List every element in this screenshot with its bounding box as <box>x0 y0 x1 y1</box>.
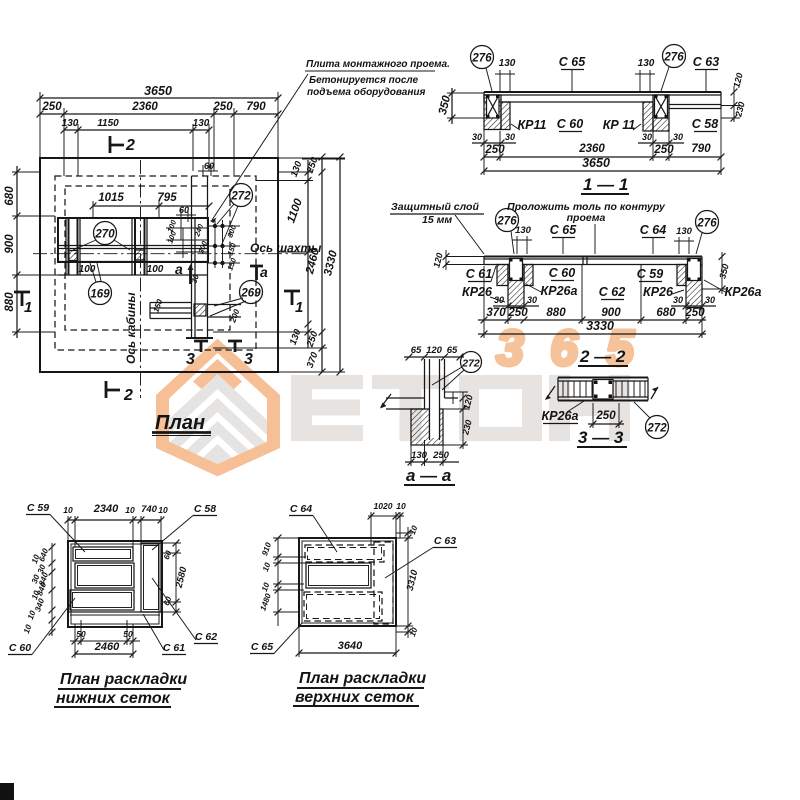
svg-text:269: 269 <box>240 288 261 300</box>
plan outer wall <box>40 158 278 372</box>
right stub lines <box>208 305 242 318</box>
dim 120 230 right <box>733 86 735 122</box>
cabin axis centerline <box>140 160 142 398</box>
svg-text:790: 790 <box>691 143 711 155</box>
svg-text:1: 1 <box>295 299 303 316</box>
svg-text:С 62: С 62 <box>195 631 217 643</box>
svg-text:30: 30 <box>705 295 715 305</box>
right column 1-1 <box>653 95 669 131</box>
svg-text:10: 10 <box>158 505 168 515</box>
circle 276 right 2-2 <box>696 211 719 234</box>
svg-text:740: 740 <box>141 504 158 515</box>
beam mid hatched insert <box>135 250 144 260</box>
hatched footing <box>411 409 443 445</box>
beam block outline <box>58 218 208 262</box>
SECTION 1-1 <box>437 45 747 195</box>
section mark 1 right <box>284 291 300 305</box>
svg-text:30: 30 <box>494 295 504 305</box>
left dim chain up <box>277 538 279 626</box>
svg-text:250: 250 <box>595 410 616 422</box>
right chain C 3330 <box>339 157 341 372</box>
svg-text:30: 30 <box>673 295 683 305</box>
svg-text:169: 169 <box>90 289 110 301</box>
dim row 130 1150 130 <box>64 129 209 131</box>
bottom strip <box>68 611 162 613</box>
LOWER MESH PLAN <box>8 502 218 707</box>
svg-text:276: 276 <box>663 52 684 64</box>
opening column hatched insert <box>194 304 206 316</box>
left column 2-2 <box>508 265 524 308</box>
svg-text:100: 100 <box>147 264 164 275</box>
corner mark bottom-left <box>0 783 14 800</box>
left dim chain low <box>51 543 53 636</box>
svg-text:План раскладки: План раскладки <box>60 671 187 688</box>
svg-text:2 — 2: 2 — 2 <box>579 347 626 366</box>
svg-text:250: 250 <box>484 144 505 156</box>
svg-text:250: 250 <box>212 101 233 113</box>
lower dashed band <box>304 592 382 621</box>
svg-text:КР26а: КР26а <box>542 409 579 423</box>
section mark 3 left <box>194 341 208 352</box>
svg-text:Плита монтажного проема.: Плита монтажного проема. <box>306 59 450 70</box>
svg-text:900: 900 <box>4 234 16 254</box>
beam left column verticals <box>66 218 80 275</box>
svg-text:Бетонируется после: Бетонируется после <box>309 75 418 86</box>
svg-text:10: 10 <box>63 505 73 515</box>
svg-text:10: 10 <box>125 505 135 515</box>
svg-text:15 мм: 15 мм <box>422 214 452 226</box>
svg-text:790: 790 <box>246 101 266 113</box>
section mark a right <box>250 266 263 280</box>
svg-text:3: 3 <box>244 351 253 368</box>
svg-text:30: 30 <box>642 132 652 142</box>
svg-text:120: 120 <box>426 345 443 356</box>
bar 3-3 <box>558 378 648 401</box>
lower small beam <box>150 303 192 319</box>
extension verticals 2-2 <box>484 265 702 339</box>
svg-text:10: 10 <box>396 501 406 511</box>
slab 1-1 <box>484 91 721 93</box>
end arrows 3-3 <box>546 386 658 399</box>
right chain B 250 2460 250 370 <box>321 157 323 372</box>
svg-text:1015: 1015 <box>98 192 124 204</box>
right extension lines <box>213 158 345 372</box>
watermark 365 <box>496 320 635 376</box>
left arm <box>386 398 425 409</box>
svg-text:880: 880 <box>546 307 566 319</box>
svg-text:План раскладки: План раскладки <box>299 670 426 687</box>
right arm <box>445 397 459 399</box>
dim row 250 2360 250 790 <box>40 113 278 115</box>
svg-text:КР26а: КР26а <box>541 284 578 298</box>
bar verticals <box>563 381 645 397</box>
svg-text:250: 250 <box>41 101 62 113</box>
middle band <box>75 563 134 588</box>
svg-text:2340: 2340 <box>93 503 119 515</box>
svg-text:КР26: КР26 <box>643 285 674 299</box>
right chain A 130 1100 130 <box>307 160 309 348</box>
note leader <box>212 74 308 220</box>
dim 1015 795 <box>93 205 209 207</box>
svg-text:30: 30 <box>673 132 683 142</box>
dim row 3650 <box>40 97 278 99</box>
dim 3650 <box>484 170 721 172</box>
dim 350 right <box>721 252 723 294</box>
svg-text:1150: 1150 <box>97 118 119 129</box>
section mark 3 right <box>228 341 242 352</box>
svg-text:130: 130 <box>515 225 532 236</box>
opening column bottom cap <box>186 337 213 339</box>
svg-text:2: 2 <box>125 137 135 154</box>
svg-text:С 65: С 65 <box>559 55 586 69</box>
UPPER MESH PLAN <box>250 501 457 706</box>
circle 276 left 2-2 <box>496 209 519 232</box>
svg-text:С 58: С 58 <box>692 117 718 131</box>
dim 3330 <box>478 333 706 335</box>
section mark 2 bottom <box>106 381 120 398</box>
extension verticals top <box>40 92 278 176</box>
slab 2-2 <box>484 256 702 258</box>
right dim chain up <box>407 527 409 638</box>
logo inner top chevron <box>193 359 242 390</box>
svg-text:1 — 1: 1 — 1 <box>583 175 628 194</box>
top dashed band <box>305 545 384 562</box>
svg-text:подъема оборудования: подъема оборудования <box>307 86 425 98</box>
circle 270 <box>94 222 117 245</box>
right column 2-2 <box>686 265 702 308</box>
svg-text:30: 30 <box>527 295 537 305</box>
beam inner horizontals <box>58 246 208 276</box>
svg-text:370: 370 <box>486 307 506 319</box>
svg-text:С 63: С 63 <box>693 55 719 69</box>
svg-text:С 61: С 61 <box>466 267 492 281</box>
svg-text:КР 11: КР 11 <box>603 118 636 132</box>
svg-text:50: 50 <box>123 629 133 639</box>
svg-text:130: 130 <box>499 58 516 69</box>
svg-text:272: 272 <box>646 423 667 435</box>
svg-text:Защитный слой: Защитный слой <box>391 201 479 213</box>
right dashed strip <box>374 542 393 624</box>
svg-text:КР11: КР11 <box>518 118 547 132</box>
svg-text:130: 130 <box>193 118 210 129</box>
svg-text:С 62: С 62 <box>599 285 625 299</box>
opening column strip <box>192 176 208 338</box>
cluster tick lines left of opening <box>166 228 208 258</box>
svg-text:6: 6 <box>550 320 579 376</box>
svg-text:1020: 1020 <box>374 501 393 511</box>
svg-text:План: План <box>155 412 205 434</box>
right strip C58 <box>141 543 161 612</box>
svg-text:900: 900 <box>601 307 621 319</box>
svg-text:а — а: а — а <box>406 466 451 485</box>
plan dashed contour inner <box>65 186 230 330</box>
svg-text:3: 3 <box>186 351 195 368</box>
right dim chain low <box>175 543 177 612</box>
lower band <box>70 590 134 610</box>
svg-text:Ось кабины: Ось кабины <box>124 292 138 364</box>
svg-text:КР26: КР26 <box>462 285 493 299</box>
svg-text:С 60: С 60 <box>557 117 583 131</box>
solid middle band up <box>306 563 371 588</box>
svg-text:2: 2 <box>123 387 133 404</box>
section mark 1 left <box>14 292 30 306</box>
svg-text:2360: 2360 <box>131 101 158 113</box>
svg-text:a: a <box>260 264 268 280</box>
left dim chain 680 900 880 <box>16 166 18 338</box>
svg-text:270: 270 <box>94 229 115 241</box>
svg-text:КР26а: КР26а <box>725 285 762 299</box>
section mark 2 top <box>110 136 124 153</box>
svg-text:276: 276 <box>471 53 492 65</box>
svg-text:С 58: С 58 <box>194 503 216 515</box>
small dims cluster rotated labels <box>165 218 238 272</box>
dim 120 230 right a-a <box>462 392 464 449</box>
svg-text:С 61: С 61 <box>163 642 185 654</box>
dim 120 left edge <box>445 250 447 270</box>
shaft axis centerline <box>33 253 308 255</box>
svg-text:3 — 3: 3 — 3 <box>578 428 624 447</box>
left column 1-1 <box>484 95 501 130</box>
svg-text:30: 30 <box>505 132 515 142</box>
outer mesh rect up <box>299 538 396 626</box>
svg-text:С 60: С 60 <box>549 266 575 280</box>
circle 272 a-a <box>461 352 482 373</box>
svg-text:С 65: С 65 <box>251 641 273 653</box>
svg-text:272: 272 <box>230 191 251 203</box>
shaft walls <box>425 359 445 440</box>
svg-text:680: 680 <box>656 307 676 319</box>
beam mid column verticals <box>132 218 147 275</box>
svg-text:нижних сеток: нижних сеток <box>56 690 171 707</box>
svg-text:С 64: С 64 <box>640 223 666 237</box>
SECTION 3-3 <box>542 378 669 448</box>
svg-text:680: 680 <box>4 186 16 206</box>
svg-text:250: 250 <box>507 307 528 319</box>
svg-text:3330: 3330 <box>586 319 614 333</box>
dim 350 left <box>451 88 453 124</box>
svg-text:С 65: С 65 <box>550 223 577 237</box>
circle 276 left <box>471 46 494 69</box>
svg-text:3650: 3650 <box>144 84 172 98</box>
svg-text:2360: 2360 <box>578 143 605 155</box>
svg-text:3640: 3640 <box>338 640 363 652</box>
SECTION a-a <box>380 345 482 485</box>
circle 272 3-3 <box>646 416 669 439</box>
dim row 250 2360 250 790 <box>484 156 721 158</box>
svg-text:a: a <box>175 261 183 277</box>
svg-text:880: 880 <box>4 292 16 312</box>
circle 276 right <box>663 45 686 68</box>
dim row 370 250 880 900 680 250 <box>478 319 706 321</box>
svg-text:130: 130 <box>638 58 655 69</box>
circle 269 <box>240 281 263 304</box>
circle 169 <box>89 282 112 305</box>
WATERMARK <box>156 320 635 495</box>
svg-text:276: 276 <box>696 218 717 230</box>
svg-text:272: 272 <box>461 358 480 370</box>
svg-text:верхних сеток: верхних сеток <box>295 689 415 706</box>
svg-text:3650: 3650 <box>582 156 610 170</box>
svg-text:250: 250 <box>432 450 450 461</box>
top dim row <box>68 519 161 521</box>
svg-text:3: 3 <box>496 320 524 376</box>
PLAN <box>4 59 450 436</box>
watermark ETOH letters <box>291 375 630 441</box>
svg-text:130: 130 <box>676 226 693 237</box>
svg-text:1: 1 <box>24 299 32 316</box>
circle 272 <box>230 184 253 207</box>
svg-text:60: 60 <box>204 161 214 171</box>
outer mesh rect <box>68 541 162 627</box>
plan dashed contour outer <box>55 176 256 350</box>
svg-text:60: 60 <box>179 205 189 215</box>
top band <box>73 547 133 561</box>
logo gray planks <box>163 374 272 495</box>
svg-text:30: 30 <box>472 132 482 142</box>
svg-text:С 63: С 63 <box>434 535 456 547</box>
dim 250 3-3 <box>588 423 624 425</box>
svg-text:С 59: С 59 <box>27 502 49 514</box>
SECTION 2-2 <box>390 201 761 366</box>
svg-text:С 60: С 60 <box>9 642 31 654</box>
svg-text:С 64: С 64 <box>290 503 312 515</box>
middle cage 3-3 <box>593 380 613 400</box>
svg-text:250: 250 <box>653 144 674 156</box>
svg-text:65: 65 <box>447 345 458 356</box>
svg-text:795: 795 <box>157 192 177 204</box>
extension verticals 1-1 <box>484 106 721 176</box>
opening dots <box>213 224 225 265</box>
svg-text:2460: 2460 <box>94 641 120 653</box>
beam left hatched insert <box>69 251 79 261</box>
